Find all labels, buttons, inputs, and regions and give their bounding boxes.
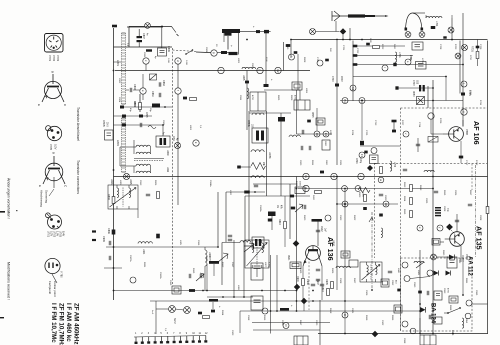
cap (black) row c — [353, 63, 358, 66]
svg-text:L904: L904 — [142, 249, 145, 255]
boxed cap C706 — [416, 62, 427, 70]
svg-text:L701: L701 — [435, 21, 438, 27]
svg-text:R814: R814 — [403, 196, 405, 202]
link arrow — [369, 217, 373, 222]
capacitor C818 — [302, 130, 304, 134]
svg-text:C700: C700 — [316, 57, 318, 63]
svg-text:L805: L805 — [242, 75, 245, 81]
svg-text:U703: U703 — [53, 231, 56, 238]
cap (black) margin b — [92, 239, 96, 241]
wire — [204, 266, 206, 291]
capacitor C715 — [416, 144, 420, 146]
wire — [240, 310, 420, 312]
svg-text:R808: R808 — [303, 57, 305, 63]
cap (black) — [364, 151, 367, 154]
resistor R701 — [476, 52, 479, 59]
svg-text:C852: C852 — [391, 280, 393, 286]
junction — [254, 191, 256, 193]
cap (black bar) — [146, 49, 152, 51]
svg-text:R840: R840 — [321, 286, 324, 292]
wire — [374, 163, 376, 258]
test point — [143, 58, 149, 64]
IF transformer Fi2 (L813/L815) — [108, 185, 138, 209]
svg-text:+: + — [270, 79, 274, 81]
wire — [410, 277, 430, 279]
wire — [114, 290, 297, 292]
svg-text:AF 135: AF 135 — [475, 226, 484, 250]
cap (black) on y63 — [393, 63, 396, 66]
wire — [265, 32, 267, 86]
wire — [253, 329, 320, 331]
wire — [284, 196, 286, 221]
collector bar 3 — [280, 308, 289, 311]
wire — [342, 35, 344, 40]
svg-text:L813: L813 — [110, 179, 113, 185]
diode (black diamond) GA100 — [293, 240, 300, 247]
junction — [432, 87, 434, 89]
test point — [303, 185, 309, 191]
wire — [222, 242, 240, 244]
wire — [344, 189, 346, 312]
mixer circle n — [448, 27, 454, 33]
transistor AF135 V560 — [445, 232, 465, 247]
transistor case drawing (bottom view) — [42, 74, 64, 102]
boxed capacitor C915 — [172, 286, 181, 294]
resistor R803 — [112, 197, 115, 204]
svg-text:8,4V: 8,4V — [62, 231, 65, 236]
wire — [142, 94, 144, 100]
wire — [227, 36, 229, 50]
cap (black) under L701 a — [431, 26, 436, 29]
junction — [296, 310, 298, 312]
svg-text:L703: L703 — [398, 52, 401, 58]
junction — [432, 310, 434, 312]
svg-text:R806: R806 — [154, 180, 156, 186]
svg-text:R680: R680 — [412, 91, 414, 97]
test point — [211, 50, 217, 56]
test point — [218, 67, 224, 73]
wire — [246, 71, 248, 131]
wire — [460, 246, 462, 262]
boxed comp on bus — [105, 130, 114, 140]
transformer below box — [420, 335, 436, 345]
junction — [312, 300, 314, 302]
junction — [336, 203, 338, 205]
resistor R814 — [410, 198, 413, 205]
coil L841 with switch arm — [414, 261, 424, 268]
svg-text:L706: L706 — [393, 162, 395, 168]
diode (black diamond) AF135 gate — [446, 224, 453, 231]
wire — [360, 145, 401, 147]
wire — [297, 54, 299, 90]
leader line colour point — [52, 274, 57, 283]
diode (black diamond) bottom — [372, 331, 378, 337]
svg-text:C909: C909 — [102, 236, 105, 242]
wire — [114, 115, 153, 117]
svg-text:C806: C806 — [162, 120, 164, 126]
cap (black) top row b — [264, 30, 269, 33]
svg-text:C708: C708 — [439, 44, 441, 50]
wire — [456, 214, 458, 232]
wire — [233, 240, 235, 297]
junction — [344, 203, 346, 205]
zigzag resistor — [358, 188, 370, 193]
svg-text:V800: V800 — [332, 240, 336, 247]
wire — [316, 108, 318, 131]
junction — [342, 39, 344, 41]
svg-text:R866: R866 — [391, 315, 393, 321]
svg-text:L840: L840 — [397, 268, 399, 274]
wire — [417, 138, 419, 152]
scan speck — [16, 210, 18, 211]
svg-text:R711: R711 — [479, 100, 481, 106]
capacitor C850 — [316, 269, 320, 271]
svg-text:R870: R870 — [451, 330, 453, 336]
wire — [296, 177, 298, 312]
wire — [472, 303, 488, 305]
svg-text:C828: C828 — [443, 206, 445, 212]
boxed variable resistor R680 — [417, 97, 425, 105]
svg-text:E: E — [38, 185, 42, 187]
transistor AF106 V580 — [444, 127, 464, 142]
coil L904 — [138, 242, 152, 244]
screen leader line — [49, 189, 54, 196]
resistor R840 — [327, 289, 330, 296]
coil row 1 — [136, 145, 150, 147]
trimmer arrow — [295, 204, 303, 212]
capacitor C803 — [130, 88, 132, 92]
cap (black) — [307, 120, 311, 123]
svg-text:C909: C909 — [365, 290, 367, 296]
wire — [437, 256, 448, 258]
cap (black) bus top — [112, 25, 117, 28]
svg-text:L841: L841 — [417, 270, 419, 276]
svg-text:C917: C917 — [231, 262, 233, 268]
capacitor C821 — [228, 239, 232, 241]
test point — [404, 276, 410, 282]
svg-text:R815: R815 — [403, 209, 405, 215]
svg-text:5600: 5600 — [312, 195, 314, 201]
wire — [375, 163, 488, 165]
boxed cap C705 — [412, 42, 423, 50]
svg-text:L815: L815 — [129, 179, 132, 185]
resistor R832 — [203, 316, 210, 319]
svg-text:L813: L813 — [189, 125, 191, 131]
svg-text:C923: C923 — [231, 330, 233, 336]
wire — [221, 243, 223, 286]
coil L812 — [336, 266, 350, 268]
scan mark left edge — [0, 211, 5, 213]
wire — [114, 46, 173, 48]
wire — [137, 209, 139, 218]
svg-text:C709: C709 — [479, 44, 481, 50]
test point — [130, 277, 136, 283]
transformer core lines — [134, 159, 164, 161]
capacitor C912 — [228, 235, 232, 237]
svg-text:I F FM 10,7Mc: I F FM 10,7Mc — [50, 303, 57, 343]
wire — [213, 264, 215, 276]
svg-text:ZF FM 10,7MHz: ZF FM 10,7MHz — [58, 303, 65, 345]
svg-text:BA 124: BA 124 — [430, 303, 436, 324]
DIN socket pins — [49, 37, 58, 49]
svg-text:H1: H1 — [384, 203, 388, 207]
svg-text:R904: R904 — [296, 276, 299, 282]
boxed trimmer cap C817b — [292, 82, 302, 90]
zigzag resistor osc — [251, 163, 266, 170]
svg-text:C831: C831 — [143, 52, 145, 58]
svg-text:5-20p: 5-20p — [268, 262, 270, 268]
capacitor C834 — [159, 93, 161, 97]
junction — [113, 70, 115, 72]
svg-text:C916: C916 — [197, 240, 199, 246]
svg-text:4700: 4700 — [251, 95, 253, 101]
ferrite winding rungs upper — [122, 35, 126, 101]
coil row 2 — [136, 152, 150, 154]
capacitor C901 — [304, 205, 306, 209]
coil L903 — [205, 250, 207, 266]
diode AA top — [449, 255, 455, 260]
wire — [487, 41, 489, 334]
svg-text:B1: B1 — [343, 99, 347, 103]
svg-text:R919: R919 — [365, 315, 367, 321]
junction — [445, 76, 447, 78]
wire — [344, 318, 346, 334]
wire — [133, 89, 140, 91]
junction — [344, 188, 346, 190]
test point — [378, 177, 384, 183]
wire — [318, 333, 488, 335]
svg-text:C862: C862 — [458, 258, 460, 264]
svg-text:C806: C806 — [107, 228, 110, 234]
junction — [451, 39, 453, 41]
wire — [460, 141, 462, 163]
striped electrolytic C830 — [252, 128, 268, 143]
svg-text:C805: C805 — [145, 112, 147, 118]
boxed resistor R869 — [434, 317, 442, 324]
diode (black diamond) antenna — [340, 28, 346, 34]
capacitor C914 — [200, 274, 202, 278]
wire — [291, 39, 488, 41]
junction — [419, 303, 421, 305]
variable cap arrow — [196, 273, 204, 281]
black corner piece — [152, 104, 160, 108]
wire — [129, 25, 145, 27]
cap (black) osc T — [244, 191, 250, 194]
wire — [238, 33, 240, 55]
wire — [427, 86, 429, 108]
svg-text:AF 106: AF 106 — [472, 121, 481, 145]
test point — [359, 152, 365, 158]
test point — [402, 262, 408, 268]
L819 box top — [294, 100, 310, 110]
wire — [115, 70, 310, 72]
wire — [371, 212, 373, 290]
svg-text:L801: L801 — [116, 60, 120, 66]
R805 boxed resistor — [316, 118, 325, 125]
wire — [104, 267, 122, 269]
DIN speaker socket outline — [45, 34, 64, 53]
svg-text:C907b: C907b — [129, 255, 131, 262]
junction — [296, 300, 298, 302]
junction — [290, 39, 292, 41]
capacitor C910 — [109, 256, 111, 260]
test point — [342, 201, 348, 207]
junction — [161, 26, 163, 28]
svg-text:C821: C821 — [339, 160, 341, 166]
test point — [410, 328, 416, 334]
mixer circle bus left — [123, 173, 129, 179]
wire — [419, 318, 421, 334]
wire — [161, 26, 163, 48]
wire — [217, 192, 219, 247]
svg-text:4700: 4700 — [447, 288, 449, 294]
cap (black) foot — [392, 130, 396, 133]
wire — [355, 55, 413, 57]
junction — [419, 333, 421, 335]
svg-text:C905: C905 — [299, 268, 301, 274]
svg-text:R813: R813 — [403, 182, 405, 188]
wire — [425, 15, 427, 18]
svg-text:R803: R803 — [133, 101, 135, 107]
boxed cap C809 — [158, 48, 167, 56]
resistor R812 — [380, 167, 383, 174]
test point — [405, 59, 411, 65]
ferrite rod coil L809 (dotted winding lower) — [122, 118, 126, 172]
wire — [239, 166, 251, 168]
wire — [445, 77, 447, 101]
wire — [114, 176, 488, 178]
junction — [432, 333, 434, 335]
capacitor C913 — [189, 274, 191, 278]
svg-text:C810: C810 — [286, 44, 288, 50]
svg-text:L905b: L905b — [268, 152, 270, 159]
resistor R806 — [157, 192, 160, 199]
svg-text:R702: R702 — [381, 44, 383, 50]
junction — [284, 290, 286, 292]
svg-text:R831: R831 — [143, 262, 145, 268]
svg-text:L906: L906 — [237, 285, 239, 291]
svg-text:R916: R916 — [263, 315, 265, 321]
svg-text:Änderungen vorbehalten !: Änderungen vorbehalten ! — [7, 178, 11, 219]
wire — [280, 113, 282, 196]
junction — [265, 31, 267, 33]
svg-text:C700: C700 — [331, 76, 333, 82]
cap (black) mid — [268, 219, 272, 222]
svg-text:V701: V701 — [48, 55, 52, 62]
svg-text:C804: C804 — [118, 97, 120, 103]
leader line screening — [47, 214, 51, 218]
wire — [276, 255, 278, 311]
boxed cap C919 — [251, 263, 263, 280]
svg-text:C807b: C807b — [102, 120, 104, 127]
svg-text:C922: C922 — [381, 320, 383, 326]
wire — [303, 304, 305, 311]
svg-text:C811: C811 — [239, 95, 241, 101]
svg-text:C830b: C830b — [247, 120, 249, 127]
coil L811b — [424, 170, 434, 172]
svg-text:C811: C811 — [172, 136, 174, 142]
transistor AF136 V800 — [303, 246, 322, 266]
collector load bar — [312, 219, 323, 222]
ferrite rod coil L807 (dotted winding upper) — [122, 33, 126, 104]
test point — [461, 109, 467, 115]
svg-text:B: B — [51, 71, 55, 73]
test point — [175, 88, 181, 94]
svg-text:C711: C711 — [469, 90, 471, 96]
junction — [344, 300, 346, 302]
svg-text:R705: R705 — [295, 181, 297, 187]
test point — [325, 215, 331, 221]
test point — [314, 131, 320, 137]
svg-text:R868: R868 — [449, 305, 451, 311]
test point — [359, 98, 365, 104]
capacitor C909 — [109, 241, 111, 245]
wire — [239, 311, 241, 333]
boxed resistor R560a — [341, 251, 350, 258]
R705 boxed resistor on bus — [295, 187, 305, 194]
svg-text:30-0: 30-0 — [106, 122, 108, 127]
diode AA112 a — [434, 271, 439, 276]
wire — [175, 309, 183, 310]
cap (black) — [418, 291, 422, 294]
test point — [437, 225, 443, 231]
svg-text:R914: R914 — [221, 310, 223, 316]
svg-text:L907: L907 — [264, 262, 266, 268]
svg-text:L864: L864 — [465, 318, 467, 324]
wire — [173, 50, 197, 52]
striped cap C915b — [252, 237, 264, 248]
svg-text:U705: U705 — [59, 231, 62, 238]
boxed resistor 3900 — [322, 140, 330, 150]
svg-text:L803: L803 — [237, 58, 239, 64]
junction — [432, 100, 434, 102]
cap (black) row b — [353, 54, 358, 57]
wire — [462, 13, 464, 127]
svg-text:+: + — [218, 306, 222, 308]
test point — [193, 140, 199, 146]
svg-text:L809: L809 — [166, 150, 169, 156]
junction — [164, 106, 166, 108]
svg-text:R810: R810 — [278, 219, 281, 225]
wire — [244, 196, 246, 240]
cap (black) — [363, 207, 367, 210]
test point — [342, 98, 348, 104]
coil row 4 — [136, 171, 150, 173]
junction — [222, 296, 224, 298]
switch pole circle 1 — [405, 32, 411, 38]
wire — [430, 119, 432, 134]
svg-text:R709: R709 — [439, 118, 441, 124]
junction — [246, 39, 248, 41]
wire — [162, 125, 164, 136]
wire — [459, 41, 461, 94]
winding end wires — [120, 140, 150, 173]
svg-text:R861: R861 — [465, 278, 467, 284]
electrolytic stack — [137, 29, 143, 47]
svg-text:C902: C902 — [320, 226, 322, 232]
svg-text:0,2V: 0,2V — [50, 231, 53, 236]
svg-text:V705: V705 — [49, 144, 53, 151]
wire — [412, 12, 425, 14]
junction — [202, 290, 204, 292]
wire — [397, 87, 433, 89]
osc box upper — [250, 92, 266, 111]
svg-text:C65: C65 — [416, 80, 418, 85]
svg-text:R918: R918 — [329, 308, 331, 314]
junction — [206, 290, 208, 292]
wire — [475, 165, 477, 258]
svg-text:R803: R803 — [107, 194, 110, 200]
